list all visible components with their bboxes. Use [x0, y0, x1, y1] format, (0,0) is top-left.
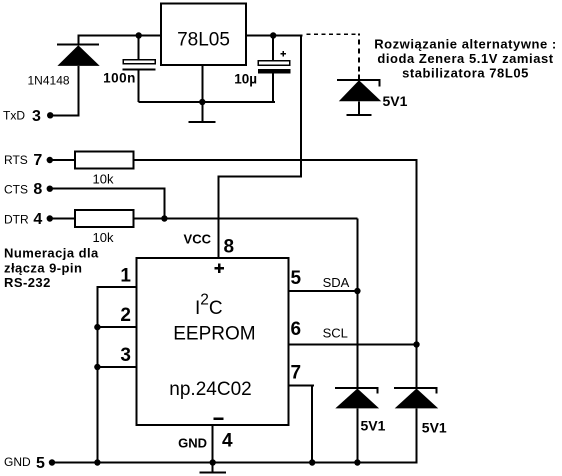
wire ground rail	[52, 462, 418, 464]
svg-text:DTR: DTR	[4, 212, 29, 226]
node TxD terminal 3	[3, 108, 53, 125]
capacitor C1 100n	[123, 36, 156, 103]
ground at EEPROM pin 4	[199, 471, 226, 473]
wire pin 1	[96, 286, 136, 463]
wire dashed alternative link	[307, 34, 360, 80]
wire VCC drop (output rail down, jog left, down to pin 8)	[217, 36, 302, 259]
wire R2 to SDA corner	[134, 218, 359, 292]
svg-text:7: 7	[291, 363, 302, 384]
node CTS terminal 8	[4, 181, 53, 198]
node junction bus/gnd	[94, 459, 100, 465]
wire pin 4 ground lead	[212, 425, 214, 471]
svg-text:VCC: VCC	[184, 232, 212, 247]
wire output rail (78L05 to corner)	[246, 35, 302, 37]
node DTR terminal 4	[4, 211, 53, 228]
svg-text:RTS: RTS	[4, 153, 28, 167]
svg-text:SCL: SCL	[323, 326, 348, 341]
svg-text:dioda Zenera 5.1V zamiast: dioda Zenera 5.1V zamiast	[377, 51, 553, 66]
resistor R2 10k	[75, 210, 134, 227]
wire pin 7	[288, 384, 314, 462]
node junction bottom rail	[199, 99, 205, 105]
svg-text:3: 3	[120, 345, 131, 366]
wire TxD	[50, 114, 79, 116]
node junction bus pin3	[94, 364, 100, 370]
svg-text:10k: 10k	[93, 230, 114, 245]
node junction D3/gnd	[354, 459, 360, 465]
svg-text:78L05: 78L05	[177, 30, 230, 51]
svg-text:Rozwiązanie alternatywne :: Rozwiązanie alternatywne :	[374, 37, 557, 52]
svg-text:EEPROM: EEPROM	[173, 323, 255, 344]
svg-text:4: 4	[33, 211, 42, 228]
svg-text:5V1: 5V1	[361, 418, 386, 434]
resistor R1 10k	[75, 151, 134, 168]
symbol minus (pin4 polarity)	[213, 417, 223, 420]
wire DTR to R2	[50, 218, 75, 220]
svg-text:8: 8	[33, 181, 42, 198]
wire RTS to R1	[50, 159, 75, 161]
svg-text:5: 5	[36, 455, 45, 472]
node junction pin7/gnd	[309, 459, 315, 465]
svg-text:CTS: CTS	[4, 182, 28, 196]
zener D4 5V1 (SCL clamp)	[394, 387, 438, 462]
svg-text:10k: 10k	[93, 172, 114, 187]
node junction SDA	[354, 288, 360, 294]
wire 78L05 ground lead	[201, 65, 203, 121]
regulator U2 78L05 box	[161, 4, 246, 66]
node GND terminal 5	[4, 455, 55, 472]
svg-text:6: 6	[291, 319, 302, 340]
zener D3 5V1 (SDA clamp)	[335, 291, 379, 463]
svg-text:GND: GND	[4, 455, 31, 469]
wire R1 to SCL corner	[134, 159, 418, 388]
svg-text:Numeracja dla: Numeracja dla	[4, 246, 99, 261]
node junction output/10u	[270, 32, 276, 38]
text note alternative	[374, 37, 557, 81]
wire pin 3	[97, 366, 136, 368]
svg-text:10µ: 10µ	[234, 72, 257, 87]
svg-text:1N4148: 1N4148	[28, 74, 70, 88]
capacitor C2 10u electrolytic	[258, 36, 290, 103]
node junction pin4/gnd	[210, 459, 216, 465]
node junction bus pin2	[94, 324, 100, 330]
svg-text:TxD: TxD	[3, 109, 25, 123]
wire CTS to DTR net	[50, 188, 166, 220]
wire pin 6 SCL	[288, 344, 416, 346]
ground under 78L05	[189, 121, 216, 123]
wire pin 5 SDA	[288, 290, 357, 292]
svg-text:5V1: 5V1	[422, 420, 447, 436]
svg-text:złącza 9-pin: złącza 9-pin	[4, 260, 82, 275]
svg-text:np.24C02: np.24C02	[169, 379, 251, 400]
node junction CTS/DTR	[161, 215, 167, 221]
svg-text:SDA: SDA	[323, 275, 350, 290]
text note DB9 numbering	[4, 246, 99, 290]
svg-text:3: 3	[32, 108, 41, 125]
node RTS terminal 7	[4, 152, 53, 169]
svg-text:7: 7	[33, 152, 42, 169]
IC U1 EEPROM box	[137, 258, 289, 425]
svg-text:5: 5	[291, 268, 302, 289]
svg-text:RS-232: RS-232	[4, 275, 51, 290]
zener D2 5V1 alternative	[337, 79, 381, 116]
wire pin 2	[97, 326, 136, 328]
svg-text:8: 8	[224, 237, 235, 258]
svg-text:4: 4	[222, 431, 233, 452]
diode D1 1N4148	[57, 36, 100, 117]
svg-text:100n: 100n	[103, 71, 136, 86]
node junction input/100n	[136, 32, 142, 38]
wire input rail (diode top to 78L05 input)	[77, 35, 162, 37]
svg-text:GND: GND	[178, 436, 207, 451]
wire bottom rail between caps	[139, 101, 276, 103]
svg-text:5V1: 5V1	[383, 93, 408, 109]
svg-text:stabilizatora 78L05: stabilizatora 78L05	[402, 65, 529, 80]
symbol plus (pin8 polarity)	[215, 264, 225, 274]
node junction SCL	[413, 341, 419, 347]
svg-text:1: 1	[120, 266, 131, 287]
svg-text:2: 2	[120, 305, 131, 326]
